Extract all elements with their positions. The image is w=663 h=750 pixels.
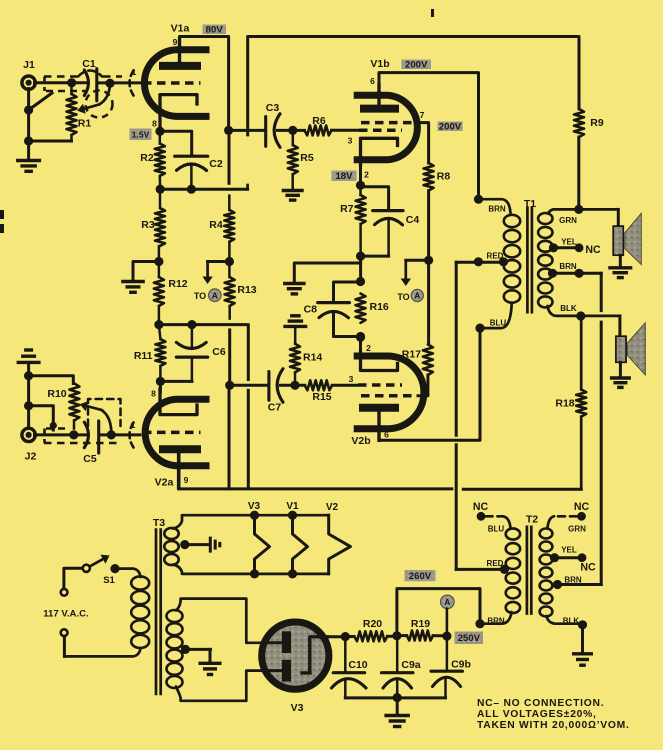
tube V2b plate bar bbox=[359, 404, 399, 412]
svg-text:NC: NC bbox=[574, 501, 590, 513]
tube V2b control grid (dashed) bbox=[358, 383, 402, 387]
svg-text:R1: R1 bbox=[78, 118, 92, 130]
svg-text:80V: 80V bbox=[206, 25, 224, 36]
tube V1b envelope bbox=[354, 95, 418, 160]
svg-text:3: 3 bbox=[348, 136, 353, 146]
tube V2a envelope bbox=[145, 399, 209, 466]
resistor R20 bbox=[354, 631, 387, 641]
svg-text:C1: C1 bbox=[82, 58, 96, 70]
node NC GRN bbox=[577, 512, 586, 521]
wire 117VAC lower bbox=[63, 636, 66, 656]
svg-text:18V: 18V bbox=[335, 171, 353, 182]
tube V3 plate 2 bbox=[282, 660, 291, 682]
resistor R5 bbox=[292, 130, 295, 145]
svg-text:NC: NC bbox=[585, 244, 601, 256]
svg-text:R20: R20 bbox=[363, 618, 382, 630]
tube V2b plate lead bbox=[377, 411, 380, 440]
wiper arrow R1 bbox=[99, 85, 110, 105]
node R8-R17-arrow bbox=[424, 256, 433, 265]
T1 primary coil bbox=[504, 215, 520, 227]
wire YEL T2 tap bbox=[555, 556, 583, 559]
svg-text:R6: R6 bbox=[312, 115, 326, 127]
wire C1 to V1a grid bbox=[98, 81, 141, 84]
node 250V bbox=[442, 632, 451, 641]
resistor R3 bbox=[159, 189, 162, 208]
node filter gnd bbox=[393, 693, 402, 702]
svg-text:2: 2 bbox=[364, 170, 369, 180]
wire filter gnd stem bbox=[396, 698, 399, 714]
tube V2a plate bar bbox=[159, 445, 201, 453]
svg-text:1.5V: 1.5V bbox=[132, 130, 150, 140]
tube V3 plate 1 bbox=[282, 631, 291, 653]
voltage label 18V bbox=[332, 171, 357, 182]
svg-text:R18: R18 bbox=[555, 398, 574, 410]
wire to ground C8 area bbox=[294, 263, 360, 281]
svg-text:200V: 200V bbox=[439, 122, 462, 133]
wire R13node to C7 bbox=[230, 384, 268, 387]
svg-text:C2: C2 bbox=[209, 158, 223, 170]
wire R10 top bbox=[29, 376, 74, 384]
node R13 bottom junction bbox=[225, 381, 234, 390]
node C4 bottom bbox=[356, 252, 365, 261]
T3 HV coil bbox=[167, 610, 183, 622]
shield dashes second row J2 bbox=[46, 427, 66, 430]
svg-text:V1: V1 bbox=[286, 501, 299, 512]
node BLU bbox=[475, 324, 484, 333]
switch S1 bbox=[83, 565, 90, 572]
svg-text:NC– NO CONNECTION.: NC– NO CONNECTION. bbox=[477, 698, 604, 709]
wire V2a plate chain up bbox=[228, 385, 231, 489]
artifact marks bbox=[0, 210, 4, 219]
arrow TO A (second) bbox=[406, 259, 429, 262]
svg-text:C5: C5 bbox=[83, 453, 97, 465]
ground speaker 1 bbox=[608, 266, 632, 269]
ground HV CT bbox=[199, 662, 222, 665]
svg-text:3: 3 bbox=[349, 374, 354, 384]
node BLK bbox=[576, 311, 585, 320]
wire R11C6 to V2a cathode bbox=[159, 381, 162, 392]
svg-text:V2b: V2b bbox=[351, 435, 370, 447]
T2 primary coil bbox=[506, 528, 520, 539]
svg-text:R11: R11 bbox=[134, 350, 153, 362]
node T1 BRN bbox=[474, 195, 483, 204]
svg-text:R16: R16 bbox=[370, 301, 389, 313]
node C5-wiper junction bbox=[107, 430, 116, 439]
connector J2 (input jack) bbox=[22, 428, 35, 441]
svg-text:6: 6 bbox=[384, 430, 389, 440]
shield dashed loop J2 bbox=[88, 399, 121, 426]
svg-text:T3: T3 bbox=[153, 517, 165, 529]
svg-text:BRN: BRN bbox=[559, 262, 577, 271]
T3 heater coil bbox=[164, 528, 178, 539]
node plate-C3 junction bbox=[224, 126, 233, 135]
resistor R9 bbox=[574, 109, 584, 137]
svg-text:R19: R19 bbox=[411, 618, 430, 630]
wire BRN2 to T2 bbox=[558, 583, 601, 586]
node J1-R1 junction bbox=[67, 78, 76, 87]
wire GRN lead bbox=[548, 209, 618, 213]
capacitor C3 bbox=[264, 117, 267, 147]
tube V1b screen grid (dashed) bbox=[361, 121, 416, 125]
shield dashes top row bbox=[44, 75, 77, 78]
resistor R18 bbox=[580, 316, 583, 390]
svg-text:2: 2 bbox=[366, 343, 371, 353]
wire bottom rail left bbox=[179, 487, 452, 490]
wire feedback drop resume bbox=[247, 390, 250, 489]
wire GRN to speaker bbox=[617, 209, 620, 226]
svg-text:T2: T2 bbox=[526, 514, 538, 526]
svg-text:C8: C8 bbox=[304, 304, 318, 316]
wire R9 to GRN node bbox=[577, 137, 580, 209]
svg-text:R8: R8 bbox=[437, 171, 451, 183]
node C3-R5-R6 bbox=[288, 126, 297, 135]
ground J1 bbox=[16, 159, 41, 162]
node J2 shield top bbox=[24, 371, 33, 380]
node GRN-R9 bbox=[574, 205, 583, 214]
capacitor C9b bbox=[446, 636, 449, 671]
wire C3 to R6 node bbox=[278, 129, 305, 132]
ground sideways heater CT bbox=[209, 537, 212, 553]
node R11-C6 bottom bbox=[156, 377, 165, 386]
wire heater rail top bbox=[173, 515, 329, 528]
shield dashed arc at grid entry bbox=[130, 71, 134, 96]
shield dashes second row bbox=[46, 90, 86, 93]
svg-text:T1: T1 bbox=[524, 198, 536, 210]
wire J1 ground drop bbox=[27, 89, 30, 159]
resistor R4 bbox=[228, 196, 231, 210]
node S1 right bbox=[110, 564, 119, 573]
svg-text:117 V.A.C.: 117 V.A.C. bbox=[43, 609, 89, 620]
capacitor C7 bbox=[267, 372, 270, 401]
ground speaker 2 bbox=[610, 376, 631, 379]
wire RED tap bbox=[456, 261, 504, 264]
wire rail y324 bbox=[159, 325, 248, 380]
resistor R14 bbox=[290, 344, 300, 373]
node R19-R20 bbox=[392, 631, 401, 640]
svg-text:C4: C4 bbox=[406, 214, 420, 226]
wire HV top to V3 bbox=[176, 599, 261, 643]
node R2 bottom bbox=[156, 185, 165, 194]
svg-text:A: A bbox=[212, 290, 218, 300]
node RED dot a bbox=[474, 257, 483, 266]
resistor R2 bbox=[159, 131, 162, 143]
ground filter bbox=[384, 714, 410, 717]
tube V3 plate2 wire bbox=[262, 669, 282, 672]
wire RED drop upper bbox=[455, 262, 458, 435]
voltage label 80V bbox=[203, 25, 227, 35]
wire speaker2 gnd stem bbox=[619, 362, 622, 376]
T3 core bbox=[155, 528, 158, 695]
wire RED T2 tap bbox=[456, 568, 504, 571]
voltage label 200V (screen) bbox=[438, 122, 463, 132]
wire BLK lead bbox=[548, 306, 620, 316]
node pin2 V1b bbox=[356, 181, 365, 190]
svg-text:A: A bbox=[444, 597, 450, 607]
resistor R7 bbox=[359, 185, 362, 195]
svg-text:R2: R2 bbox=[140, 152, 154, 164]
tube V1b plate lead bbox=[377, 85, 380, 105]
wire BRN T2 lead bbox=[480, 612, 512, 624]
node pin8 bbox=[155, 127, 164, 136]
heater V2 element bbox=[329, 515, 351, 574]
wire cathode rail corner up bbox=[246, 185, 249, 189]
voltage label 250V bbox=[455, 632, 484, 645]
tube V3 rectifier bbox=[262, 622, 329, 689]
wire 260V riser bbox=[397, 589, 480, 636]
wire BLU lead bbox=[480, 304, 512, 328]
node R12 bottom bbox=[154, 320, 163, 329]
tube V1a plate lead bbox=[178, 40, 181, 62]
wire top feedback rail bbox=[248, 37, 579, 135]
wire V1b cathode lead bbox=[359, 160, 362, 185]
svg-text:GRN: GRN bbox=[559, 216, 577, 225]
svg-text:TO: TO bbox=[397, 292, 409, 302]
wire R3 bottom to ground bbox=[133, 262, 159, 280]
wire V3 cathode out bbox=[328, 635, 346, 638]
node YEL NC bbox=[575, 243, 584, 252]
svg-text:NC: NC bbox=[580, 562, 596, 574]
svg-text:A: A bbox=[414, 291, 420, 301]
wire C4 bottom join bbox=[361, 255, 389, 258]
resistor R8 bbox=[424, 163, 434, 191]
svg-text:NC: NC bbox=[473, 501, 489, 513]
svg-text:R10: R10 bbox=[47, 388, 66, 400]
wire pin8 to C2 bbox=[160, 131, 192, 155]
capacitor C5 bbox=[84, 422, 88, 448]
wire bottom rail right bbox=[463, 488, 581, 491]
wire inv-gnd stem bbox=[294, 328, 297, 344]
svg-text:R4: R4 bbox=[209, 219, 223, 231]
speaker 1 bbox=[613, 226, 623, 255]
connector J1 (input jack) bbox=[22, 76, 35, 89]
svg-text:BLK: BLK bbox=[560, 304, 577, 313]
node BLK T2 bbox=[578, 620, 587, 629]
voltage label 1.5V bbox=[130, 129, 152, 141]
ground R5 bbox=[282, 189, 304, 192]
wire RED drop lower bbox=[455, 445, 458, 570]
svg-text:J2: J2 bbox=[25, 451, 37, 463]
wire T3 primary bottom bbox=[64, 648, 140, 656]
node RED T2 bbox=[500, 565, 509, 574]
wire YEL tap bbox=[554, 246, 580, 249]
tube V1a grid (dashed) bbox=[143, 81, 201, 85]
wire HV CT bbox=[185, 648, 210, 651]
wire BLK to speaker2 bbox=[618, 316, 621, 336]
svg-text:YEL: YEL bbox=[561, 546, 577, 555]
wire C3 node to C3 bbox=[229, 129, 264, 132]
wire BRN2 tap bbox=[553, 272, 602, 275]
svg-text:V2: V2 bbox=[326, 502, 339, 513]
wire R8 down to R17 bbox=[427, 191, 430, 345]
node RED dot b bbox=[499, 257, 508, 266]
svg-text:C6: C6 bbox=[212, 346, 226, 358]
wire BLU T2 lead bbox=[486, 515, 504, 518]
tube V2b envelope bbox=[354, 356, 424, 429]
wire BRN lead bbox=[479, 199, 511, 213]
svg-text:8: 8 bbox=[152, 119, 157, 129]
svg-text:BRN: BRN bbox=[564, 576, 582, 585]
resistor R17 bbox=[423, 344, 433, 375]
terminal 117VAC lower bbox=[61, 629, 68, 636]
wire heater rail bottom bbox=[173, 565, 329, 574]
ground R7-C4 bbox=[283, 282, 306, 285]
shield dashes left edge bbox=[43, 77, 46, 92]
node C8 top bbox=[356, 277, 365, 286]
wire BRN2 drop resume bbox=[600, 322, 603, 584]
resistor R10 (volume pot) bbox=[69, 384, 79, 421]
resistor R15 bbox=[305, 380, 333, 390]
tube V2a plate lead bbox=[177, 452, 181, 488]
svg-text:R15: R15 bbox=[312, 391, 331, 403]
node R1-bottom gnd bbox=[24, 136, 33, 145]
tube V1a plate bar bbox=[159, 62, 201, 70]
tube V2b screen grid (dashed) bbox=[361, 394, 414, 398]
svg-text:GRN: GRN bbox=[568, 525, 586, 534]
node NC BLU bbox=[477, 512, 486, 521]
svg-text:250V: 250V bbox=[458, 633, 481, 644]
svg-text:TAKEN WITH 20,000Ω’VOM.: TAKEN WITH 20,000Ω’VOM. bbox=[477, 720, 630, 731]
node heater CT bbox=[180, 540, 189, 549]
svg-text:J1: J1 bbox=[23, 59, 35, 71]
node BRN T2 bbox=[475, 619, 484, 628]
svg-text:TO: TO bbox=[194, 291, 206, 301]
svg-text:8: 8 bbox=[151, 389, 156, 399]
terminal 117VAC upper bbox=[61, 589, 68, 596]
wire shield diagonal bbox=[29, 93, 52, 110]
shield dashed arc at V2a grid bbox=[130, 423, 134, 448]
shield dashed loop around wiper bbox=[86, 91, 113, 118]
svg-text:V1a: V1a bbox=[171, 23, 190, 35]
svg-text:7: 7 bbox=[420, 110, 425, 120]
tube V1a cathode bbox=[160, 95, 197, 126]
node C1-grid junction bbox=[105, 79, 114, 88]
svg-text:R5: R5 bbox=[300, 152, 314, 164]
wire heater CT bbox=[185, 543, 208, 546]
wire J1 to C1 bbox=[35, 81, 88, 84]
ground BLK T2 bbox=[572, 652, 593, 655]
capacitor C2 bbox=[175, 155, 208, 158]
shield dashes bottom row J2 bbox=[44, 442, 122, 445]
svg-text:R9: R9 bbox=[590, 117, 604, 129]
T3 primary coil bbox=[131, 576, 149, 589]
voltage label 200V (plate V1b) bbox=[402, 60, 432, 70]
svg-text:R7: R7 bbox=[340, 203, 354, 215]
svg-text:R12: R12 bbox=[168, 278, 187, 290]
node BRN2 coil bbox=[548, 269, 557, 278]
node YEL coil bbox=[549, 243, 558, 252]
capacitor C9a bbox=[396, 636, 399, 673]
svg-text:C9a: C9a bbox=[401, 659, 420, 671]
svg-text:R3: R3 bbox=[141, 219, 155, 231]
svg-text:C7: C7 bbox=[268, 402, 282, 414]
node C2 bottom bbox=[187, 185, 196, 194]
svg-text:9: 9 bbox=[184, 475, 189, 485]
capacitor C6 bbox=[191, 325, 194, 348]
node C8 bottom bbox=[356, 332, 365, 341]
node C7-R14-R15 bbox=[290, 381, 299, 390]
capacitor C4 bbox=[373, 209, 403, 212]
wire S1 left bbox=[64, 568, 83, 588]
node shield J2 dot bbox=[50, 422, 57, 429]
T2 core bbox=[526, 526, 529, 615]
wire filter gnd rail bbox=[345, 696, 445, 699]
wire GRN T2 lead bbox=[554, 515, 577, 518]
wire C5 to V2a grid bbox=[99, 433, 140, 436]
svg-text:6: 6 bbox=[370, 76, 375, 86]
wire cathode rail y189 bbox=[160, 188, 247, 191]
wire J2 vertical bbox=[27, 376, 30, 429]
wire J2 to C5 bbox=[35, 433, 88, 436]
ground R3 bbox=[121, 280, 145, 283]
svg-text:V3: V3 bbox=[248, 501, 261, 512]
node YEL T2 NC bbox=[578, 553, 587, 562]
tube V3 cathode bbox=[310, 637, 328, 673]
T2 secondary coil bbox=[540, 529, 553, 539]
resistor R13 bbox=[228, 262, 231, 278]
wire C6 bottom join bbox=[160, 380, 192, 383]
wire R1 bottom to ground line bbox=[29, 140, 72, 143]
wire V1a plate to C3 node bbox=[180, 37, 229, 131]
node C6 top bbox=[187, 320, 196, 329]
wire shield diagonal J2 bbox=[29, 406, 54, 430]
wire R15 to V2b grid bbox=[332, 384, 357, 387]
resistor R6 bbox=[305, 125, 332, 135]
wire J2 shield stem bbox=[27, 363, 30, 376]
svg-text:9: 9 bbox=[173, 37, 178, 47]
svg-text:YEL: YEL bbox=[561, 238, 577, 247]
node heater V1 top bbox=[288, 511, 297, 520]
wire BLK T2 gnd stem bbox=[581, 625, 584, 652]
wire V1a cathode to node bbox=[159, 120, 162, 131]
svg-text:R14: R14 bbox=[303, 352, 322, 364]
svg-text:V1b: V1b bbox=[370, 58, 389, 70]
node R10 bottom bbox=[69, 430, 78, 439]
node pin2 V2b bbox=[356, 333, 365, 342]
wire C4 top bbox=[361, 187, 389, 210]
wire R20 joins bbox=[345, 635, 354, 638]
arrow TO A (first) bbox=[208, 260, 230, 263]
speaker 2 bbox=[616, 336, 626, 362]
svg-text:R13: R13 bbox=[237, 284, 256, 296]
resistor R19 bbox=[407, 631, 433, 641]
resistor R16 bbox=[356, 294, 366, 323]
T1 core bbox=[526, 206, 529, 313]
wire A stem bbox=[446, 609, 449, 636]
node R3 bottom bbox=[154, 257, 163, 266]
wire V1b screen to R8 bbox=[417, 123, 429, 163]
wire R13 resume after hop bbox=[228, 330, 231, 385]
wire V1b pin6 to T1 BRN bbox=[379, 73, 479, 200]
voltage label 260V bbox=[405, 570, 436, 581]
svg-text:C9b: C9b bbox=[451, 659, 471, 671]
node heater V3 top bbox=[250, 511, 259, 520]
A circle (bottom) bbox=[441, 595, 455, 609]
svg-text:260V: 260V bbox=[409, 571, 432, 582]
tube V1b control grid (dashed) bbox=[359, 128, 402, 132]
svg-text:S1: S1 bbox=[103, 575, 115, 586]
svg-text:1: 1 bbox=[132, 67, 137, 77]
wire BLK T2 lead bbox=[547, 616, 583, 624]
svg-text:BLU: BLU bbox=[488, 525, 505, 534]
node R4-R13 junction bbox=[225, 257, 234, 266]
wiper arrow R10 bbox=[102, 410, 112, 431]
node shield-gnd junction bbox=[24, 105, 33, 114]
node BRN2 mid bbox=[575, 269, 584, 278]
wire R6 to V1b grid bbox=[332, 129, 358, 132]
wire plate node down (hop) bbox=[228, 136, 231, 183]
resistor R12 bbox=[158, 262, 161, 278]
svg-text:C10: C10 bbox=[348, 659, 367, 671]
